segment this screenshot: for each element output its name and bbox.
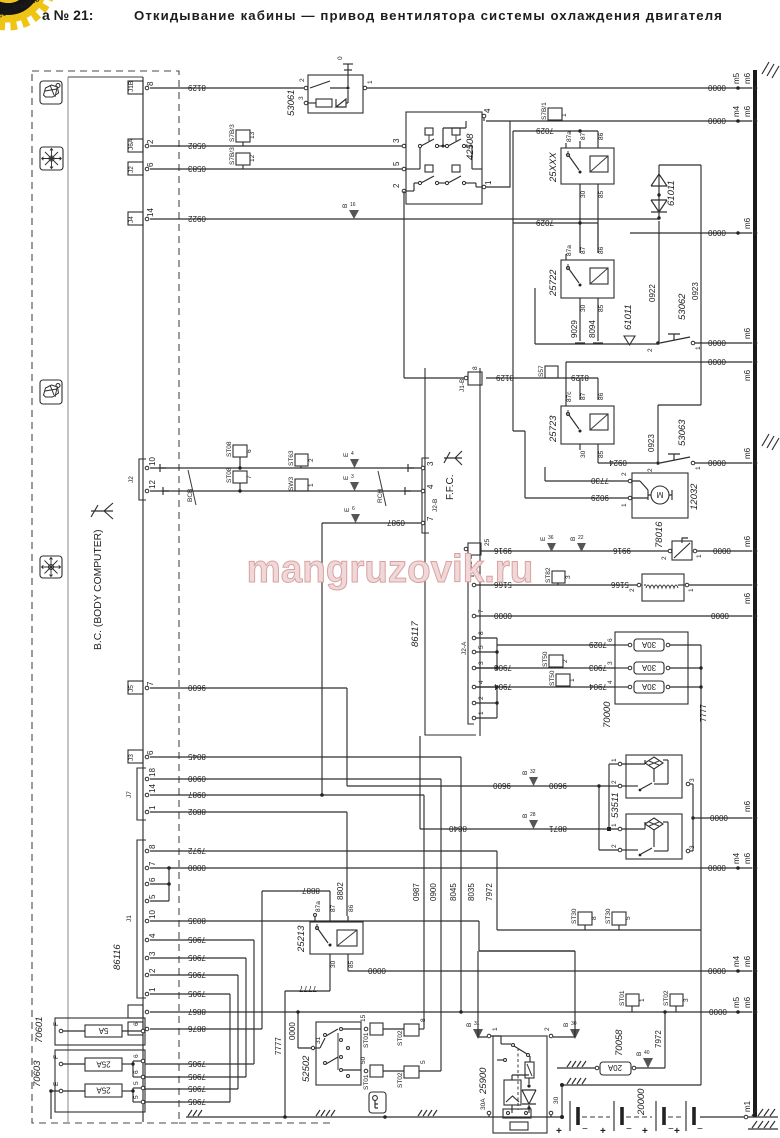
svg-text:7: 7 [426,516,435,521]
ground hatch 1068 [567,1061,586,1067]
svg-text:7972: 7972 [188,846,206,855]
wires J2A jumpers [476,638,499,718]
svg-text:12: 12 [148,480,157,489]
svg-text:7: 7 [146,681,155,686]
connector ST08 7 [226,467,253,493]
svg-text:31: 31 [474,1021,480,1027]
svg-text:J2: J2 [128,166,135,173]
wire m6 233 [630,228,752,237]
page edge hatch top right [762,62,779,78]
svg-text:S57: S57 [538,365,545,377]
svg-text:1: 1 [484,180,493,185]
svg-text:J2-A: J2-A [461,641,468,655]
svg-text:S7B/3: S7B/3 [229,147,236,165]
bus node y585 m6 [743,583,757,604]
svg-text:85: 85 [598,450,605,458]
svg-text:0000: 0000 [494,611,512,620]
svg-text:20000: 20000 [636,1088,647,1116]
svg-text:7: 7 [148,861,157,866]
svg-text:14: 14 [148,784,157,793]
svg-text:B: B [570,537,577,541]
svg-text:m6: m6 [743,72,752,84]
svg-text:53062: 53062 [677,293,688,320]
wire 53063 to bus 0000 [695,458,752,467]
svg-text:7029: 7029 [536,126,554,135]
svg-text:m6: m6 [743,955,752,967]
svg-text:30: 30 [553,1096,560,1104]
svg-text:7905: 7905 [188,989,206,998]
svg-text:m6: m6 [743,447,752,459]
bus node y343 m6 [743,327,757,345]
connector ST01 15 [360,1014,404,1048]
svg-text:+: + [674,1126,680,1137]
connector ST02 5 [397,1060,441,1088]
svg-text:0923: 0923 [647,434,656,452]
wire 0583 [150,164,406,173]
wire 7029 a [513,126,598,141]
wire 8867 [150,1007,752,1016]
svg-text:9600: 9600 [493,781,511,790]
svg-text:87a: 87a [566,245,573,256]
svg-text:5: 5 [625,916,632,920]
wire 8094 from 25722-85 [588,305,603,343]
connector 57B-1 [541,102,568,121]
switch unit 53511 upper [611,755,696,798]
FFC pins 3 4 7 [421,458,439,533]
svg-text:2: 2 [611,844,618,848]
svg-text:B: B [342,204,349,208]
marker B40 [636,1050,653,1068]
svg-text:ST08: ST08 [226,441,233,457]
marker E4 [343,451,359,468]
svg-text:0000: 0000 [710,813,728,822]
svg-text:2: 2 [647,348,654,352]
connector 8867 [128,1005,149,1018]
svg-text:m6: m6 [743,217,752,229]
svg-text:86: 86 [598,246,605,254]
wire 53511 pin3 link to bus [690,784,752,851]
svg-text:B: B [636,1052,643,1056]
wire 0924 [598,450,656,467]
connector S57 [538,365,558,378]
connector J3 pin 6 [128,750,155,763]
svg-text:ST02: ST02 [663,990,670,1006]
svg-text:8129: 8129 [188,83,206,92]
svg-text:−: − [626,1124,632,1135]
svg-text:m6: m6 [743,996,752,1008]
svg-text:ST01: ST01 [363,1074,370,1090]
svg-text:2: 2 [148,968,157,973]
svg-text:22: 22 [578,535,584,541]
wire RCH L [150,487,421,495]
svg-text:25: 25 [484,538,491,546]
svg-text:8887: 8887 [302,886,320,895]
antenna symbol near BC label [91,503,113,519]
svg-text:8: 8 [472,366,479,370]
connector J2-A [461,576,485,724]
svg-text:52502: 52502 [301,1055,312,1082]
svg-text:30A: 30A [641,682,656,691]
unit box 86117 FFC [410,368,480,736]
wire J1 jumper 5 6 7 [150,868,171,901]
svg-text:1: 1 [611,823,618,827]
svg-text:5A: 5A [98,1026,108,1035]
svg-text:B: B [466,1023,473,1027]
svg-text:6: 6 [146,162,155,167]
svg-text:ST30: ST30 [605,908,612,924]
svg-text:1: 1 [148,987,157,992]
svg-text:25A: 25A [96,1060,111,1069]
wire 7904 [476,682,615,691]
marker E6 [344,506,360,523]
svg-text:8035: 8035 [188,916,206,925]
svg-text:0924: 0924 [609,458,627,467]
svg-text:87: 87 [580,132,587,140]
svg-text:7905: 7905 [188,1084,206,1093]
svg-text:5166: 5166 [611,580,629,589]
svg-text:7903: 7903 [494,663,512,672]
svg-text:8: 8 [591,916,598,920]
connector ST01 1 [619,990,646,1012]
svg-text:87: 87 [580,392,587,400]
svg-text:ST82: ST82 [545,567,552,583]
svg-text:M: M [656,490,663,499]
svg-text:32: 32 [530,769,536,775]
svg-text:0000: 0000 [708,357,726,366]
svg-text:0987: 0987 [188,790,206,799]
ground hatch mid1 [316,1110,335,1116]
relay 25723 [548,391,614,458]
svg-text:1: 1 [695,346,702,350]
wire B40 to 7972 [636,1010,667,1068]
connector ST50 1 [549,670,576,687]
icon fan 1 [40,147,63,170]
connector ST8-3 12 [229,147,256,169]
svg-text:J6A: J6A [128,138,135,150]
svg-text:0923: 0923 [691,282,700,300]
svg-text:30A: 30A [641,663,656,672]
svg-text:30: 30 [580,304,587,312]
svg-text:61011: 61011 [623,304,634,330]
svg-text:8871: 8871 [549,824,567,833]
svg-text:4: 4 [148,933,157,938]
svg-text:2: 2 [299,78,306,82]
wire 8802 [150,807,347,916]
svg-text:7905: 7905 [188,953,206,962]
bus node y971 m4 m6 [732,955,757,973]
connector ST63 2 [288,450,315,468]
svg-text:E: E [540,536,547,541]
wire m6 362 [566,357,752,400]
svg-text:6: 6 [246,449,253,453]
connector ST30 8 [571,908,598,930]
svg-text:2: 2 [478,696,485,700]
svg-text:86: 86 [348,904,355,912]
bus node y1012 m5 m6 [732,996,757,1014]
svg-text:S7B/1: S7B/1 [541,102,548,120]
svg-text:16: 16 [350,202,356,208]
wire vertical 513 [512,131,514,223]
wire 0900 [150,774,441,1071]
svg-text:7904: 7904 [494,682,512,691]
svg-text:70058: 70058 [614,1029,625,1056]
diode pair 61011 [651,165,677,220]
wire 7730 [545,467,632,485]
svg-text:0000: 0000 [711,611,729,620]
wire 0923 vertical [647,165,701,461]
connector ST02 3 [663,990,690,1012]
svg-text:9600: 9600 [549,781,567,790]
switch 53061 [286,56,374,116]
svg-text:1: 1 [308,483,315,487]
connector ST50 2 [542,651,569,668]
svg-text:10: 10 [148,910,157,919]
svg-text:6: 6 [133,1022,140,1026]
wire 7777 vertical right of fusebox [688,645,708,1085]
svg-text:1: 1 [148,805,157,810]
relay 25XXX [548,131,614,198]
wire 7905 d [145,989,230,1106]
svg-text:B.C. (BODY COMPUTER): B.C. (BODY COMPUTER) [93,529,104,650]
switch 53062 [647,293,702,352]
svg-text:0000: 0000 [709,1007,727,1016]
svg-text:85: 85 [598,190,605,198]
svg-text:20A: 20A [607,1063,622,1072]
svg-text:F.F.C.: F.F.C. [445,474,456,500]
svg-text:1: 1 [621,503,628,507]
svg-text:5: 5 [133,1095,140,1099]
wire 8129 lower [486,373,598,400]
marker B22 [570,535,586,552]
wire 8129 top [150,83,308,92]
icon fan 2 [40,556,62,578]
svg-text:7777: 7777 [699,704,708,722]
resistor unit 5166 [629,574,695,601]
svg-text:0583: 0583 [188,164,206,173]
bus node y818 m6 [743,800,757,820]
svg-text:30: 30 [571,1021,577,1027]
svg-text:ST02: ST02 [397,1072,404,1088]
svg-text:85: 85 [348,960,355,968]
wire 8129 to bus [367,83,752,92]
svg-text:m1: m1 [743,1100,752,1112]
svg-text:36: 36 [548,535,554,541]
svg-text:−: − [697,1124,703,1135]
body computer inner left edge [67,77,69,1122]
svg-text:B: B [522,771,529,775]
svg-text:86116: 86116 [112,944,123,970]
svg-text:4: 4 [483,108,492,113]
svg-text:2: 2 [308,458,315,462]
switch block 52502 [301,1022,361,1085]
label RCH [377,471,386,506]
switch block 42508 [392,108,493,204]
connector ST8-3 13 [229,124,256,146]
svg-text:7972: 7972 [654,1030,663,1048]
svg-text:7903: 7903 [589,663,607,672]
wire 7972 [150,846,701,930]
svg-text:4: 4 [426,484,435,489]
svg-text:53061: 53061 [286,90,297,116]
icon cab tilt 1 [40,81,62,104]
svg-text:7: 7 [246,475,253,479]
svg-text:2: 2 [544,1027,551,1031]
svg-text:25900: 25900 [478,1067,489,1095]
svg-text:E: E [343,475,350,480]
wire E pin stub [51,1091,59,1119]
svg-text:0922: 0922 [188,214,206,223]
connector SW3 1 [288,477,315,491]
svg-text:F: F [53,1055,60,1059]
wire 8871 8840 [420,736,620,833]
wire 951 row [479,950,575,952]
svg-text:3: 3 [148,951,157,956]
svg-text:31: 31 [315,1036,322,1044]
svg-text:3: 3 [392,138,401,143]
connector 8876 [128,1022,149,1035]
ground hatch mid2 [418,1110,437,1116]
marker E36 [540,535,556,552]
svg-text:2: 2 [621,472,628,476]
svg-text:E: E [53,1081,60,1086]
bus node y868 m4 m6 [732,852,757,870]
marker B32 [522,769,538,786]
svg-text:2: 2 [629,588,636,592]
svg-text:m6: m6 [743,105,752,117]
svg-text:0000: 0000 [708,966,726,975]
svg-text:m6: m6 [743,369,752,381]
wire 25XXX 85 down [597,190,599,253]
svg-text:8: 8 [148,844,157,849]
svg-text:8035: 8035 [467,883,476,901]
svg-text:4: 4 [478,680,485,684]
svg-text:2: 2 [562,659,569,663]
svg-text:mangruzovik.ru: mangruzovik.ru [247,548,534,591]
svg-text:7029: 7029 [536,218,554,227]
svg-text:7905: 7905 [188,970,206,979]
ground bus m6 [753,70,757,1117]
svg-text:13: 13 [249,131,256,139]
wire 42508 pin1 loop to pin4 [486,121,510,187]
marker B31 [466,1021,483,1039]
svg-text:30: 30 [330,960,337,968]
battery to bus m1 [744,1115,748,1119]
svg-text:3: 3 [607,661,614,665]
bus node y362 m6 [743,360,757,381]
wire B31 drop to 25900 pin1 [478,951,487,1037]
svg-text:J2-B: J2-B [432,499,439,512]
wire 8035 [150,883,575,951]
svg-text:86: 86 [598,132,605,140]
svg-text:25A: 25A [96,1086,111,1095]
wire 0987 from FFC7 [322,518,421,795]
svg-text:m6: m6 [743,800,752,812]
svg-text:8094: 8094 [588,320,597,338]
connector ST30 5 [605,908,632,930]
body computer dashed boundary box [32,71,179,1123]
bottom wire ground run [200,1115,746,1119]
svg-text:J1-B: J1-B [459,379,466,392]
svg-text:+: + [600,1126,606,1137]
svg-text:87a: 87a [566,131,573,142]
svg-text:1: 1 [688,588,695,592]
svg-text:85: 85 [598,304,605,312]
svg-text:m6: m6 [743,852,752,864]
wire 0000 long m4 m6 [150,863,752,872]
svg-text:7777: 7777 [299,984,317,993]
svg-text:8045: 8045 [449,883,458,901]
svg-text:0922: 0922 [648,284,657,302]
svg-text:7730: 7730 [591,476,609,485]
svg-text:87a: 87a [315,901,322,912]
svg-text:10: 10 [148,457,157,466]
body computer inner top edge [68,76,143,78]
label BCB [187,470,196,505]
svg-text:30A: 30A [480,1098,487,1110]
fuse box 70603 [53,1050,145,1112]
svg-text:0900: 0900 [429,883,438,901]
wire 0000 J2A7 to bus [476,611,752,620]
svg-text:1: 1 [695,466,702,470]
svg-text:25723: 25723 [548,415,559,443]
svg-text:86: 86 [598,392,605,400]
svg-text:m4: m4 [732,955,741,967]
svg-text:5: 5 [420,1060,427,1064]
bus node y463 m6 [743,447,757,465]
fuse box 70000 [602,632,688,728]
svg-text:0: 0 [337,56,344,60]
svg-text:70000: 70000 [602,701,613,728]
page edge hatch mid right [762,434,779,450]
svg-text:12: 12 [249,154,256,162]
connector J4 pin 14 [128,208,155,225]
wire diode top to 0923 vertical [659,164,701,166]
body computer connector spine [142,77,144,1122]
svg-text:6: 6 [133,1054,140,1058]
fuse 70058 20A [557,1029,636,1075]
svg-text:ST01: ST01 [619,990,626,1006]
key symbol box [369,1092,386,1113]
relay 25213 [296,901,363,968]
svg-text:0000: 0000 [368,966,386,975]
thermal switch 78016 [654,521,703,560]
svg-text:ST30: ST30 [571,908,578,924]
svg-text:1: 1 [569,678,576,682]
svg-text:J1B: J1B [128,81,135,92]
svg-text:m4: m4 [732,105,741,117]
svg-text:86117: 86117 [410,621,421,647]
svg-text:6: 6 [352,506,355,512]
svg-text:28: 28 [530,812,536,818]
svg-text:J2: J2 [128,476,135,483]
svg-text:ST01: ST01 [363,1032,370,1048]
svg-text:а № 21:: а № 21: [42,7,93,23]
svg-text:J5: J5 [128,685,135,692]
ground hatch 1085 [567,1078,586,1084]
svg-text:0000: 0000 [708,458,726,467]
svg-text:5: 5 [148,894,157,899]
svg-text:7: 7 [478,609,485,613]
svg-text:9029: 9029 [570,320,579,338]
svg-text:m6: m6 [743,535,752,547]
svg-text:0000: 0000 [708,228,726,237]
connector J1 pins 8 7 6 5 10 4 3 2 1 [126,840,157,998]
svg-text:5: 5 [478,645,485,649]
svg-text:0000: 0000 [708,338,726,347]
svg-text:7029: 7029 [589,640,607,649]
svg-text:2: 2 [392,183,401,188]
connector J6A pin 2 [128,138,155,152]
